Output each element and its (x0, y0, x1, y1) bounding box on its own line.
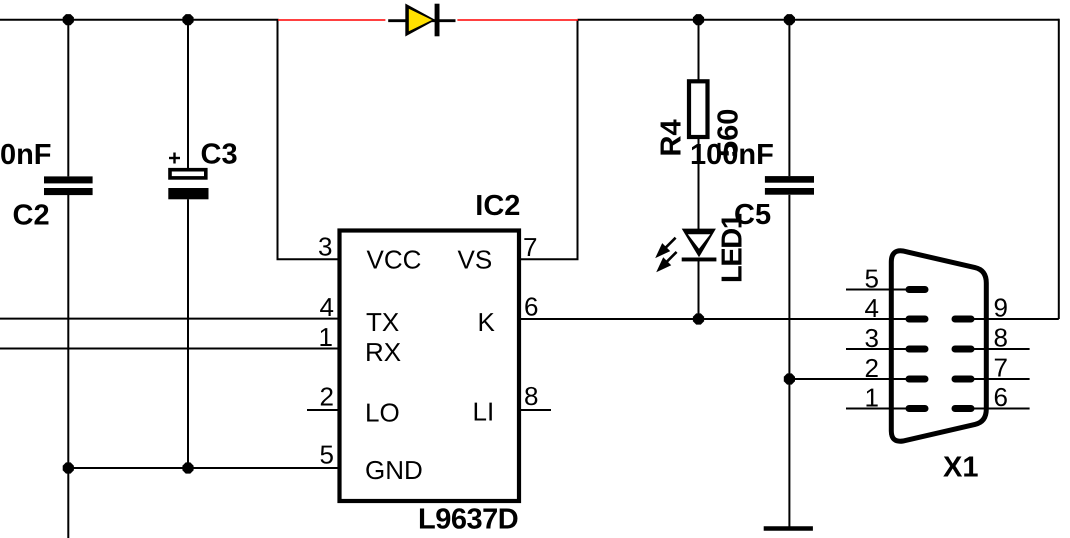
svg-text:R4: R4 (656, 119, 688, 156)
svg-text:GND: GND (365, 455, 423, 485)
wire X1 pin 9 (971, 318, 1059, 320)
wire RX pin 1 (0, 348, 338, 350)
svg-text:8: 8 (524, 381, 538, 411)
svg-text:3: 3 (318, 232, 332, 262)
wire K pin 6 to X1 pin 4 (521, 318, 909, 320)
svg-text:TX: TX (366, 307, 399, 337)
wire C3 bottom to GND rail (187, 199, 189, 468)
svg-text:RX: RX (365, 337, 401, 367)
svg-text:4: 4 (320, 292, 334, 322)
svg-text:LED1: LED1 (717, 213, 749, 283)
junction node GND-C3 (182, 462, 193, 473)
svg-text:7: 7 (523, 232, 537, 262)
connector X1 shell (891, 251, 986, 441)
wire C5 bottom to ground (788, 195, 790, 527)
diode D lead (388, 19, 455, 22)
capacitor C2 plates (44, 176, 93, 195)
junction node C5-pin2 (784, 373, 795, 384)
wire GND pin 5 (68, 467, 337, 469)
svg-text:9: 9 (994, 293, 1008, 323)
svg-text:K: K (478, 307, 496, 337)
svg-text:LO: LO (365, 398, 400, 428)
svg-text:VS: VS (458, 245, 493, 275)
svg-text:1: 1 (865, 383, 879, 413)
capacitor C3 polarity + (169, 153, 180, 164)
wire TX pin 4 (0, 318, 338, 320)
wire X1 pin 5 (846, 289, 909, 291)
svg-text:2: 2 (865, 353, 879, 383)
wire C5 top lead (788, 20, 790, 176)
svg-text:L9637D: L9637D (418, 504, 518, 536)
wire X1 pin 1 (846, 408, 909, 410)
LED LED1 symbol (682, 229, 717, 262)
junction node top C5 (784, 14, 795, 25)
svg-text:1: 1 (319, 322, 333, 352)
svg-text:C3: C3 (201, 139, 238, 171)
svg-text:IC2: IC2 (475, 190, 520, 222)
svg-text:6: 6 (524, 292, 538, 322)
ground symbol (764, 526, 813, 531)
connector X1 pin contacts left column (909, 290, 925, 409)
wire VS pin 7 branch (521, 20, 578, 260)
wire X1 pin 3 (846, 348, 909, 350)
wire X1 pin 2 from C5 node (789, 378, 909, 380)
svg-text:3: 3 (865, 323, 879, 353)
junction node LED-K (693, 313, 704, 324)
wire X1 pin 6 (971, 408, 1030, 410)
svg-text:5: 5 (865, 264, 879, 294)
capacitor C3 (electrolytic) plates (168, 170, 208, 200)
svg-text:2: 2 (320, 382, 334, 412)
wire top rail left (0, 19, 279, 21)
svg-text:X1: X1 (943, 452, 978, 484)
resistor R4 body (689, 81, 708, 137)
svg-text:VCC: VCC (367, 245, 422, 275)
svg-text:4: 4 (865, 293, 879, 323)
IC U1 box (340, 231, 520, 502)
wire top rail right (578, 19, 1059, 21)
svg-text:100nF: 100nF (690, 139, 774, 171)
wire LI pin 8 stub (521, 409, 551, 411)
wire right drop to X1 pin 9 (1058, 19, 1060, 319)
junction node top C3 (182, 14, 193, 25)
wire R4 top lead (698, 20, 700, 82)
wire LO pin 2 stub (307, 409, 338, 411)
capacitor C5 plates (765, 176, 814, 195)
junction node top R4 (693, 14, 704, 25)
svg-text:C2: C2 (13, 200, 50, 232)
wire C2 to GND rail and below (67, 195, 69, 538)
wire X1 pin 8 (971, 348, 1030, 350)
svg-text:6: 6 (994, 382, 1008, 412)
wire X1 pin 7 (971, 378, 1030, 380)
wire VCC pin 3 branch (278, 20, 338, 260)
junction node GND-C2 (63, 462, 74, 473)
svg-text:5: 5 (320, 440, 334, 470)
svg-text:8: 8 (994, 323, 1008, 353)
wire R4 to LED (698, 137, 700, 231)
wire C3 branch vertical top (187, 20, 189, 168)
diode D (yellow) (405, 4, 439, 37)
svg-text:7: 7 (994, 353, 1008, 383)
wire LED to K line (698, 260, 700, 320)
wire C2 branch vertical (67, 20, 69, 177)
svg-text:LI: LI (473, 397, 495, 427)
LED LED1 emission arrows (658, 238, 677, 270)
junction node top C2 (63, 14, 74, 25)
wire red net segment (278, 19, 385, 21)
svg-text:100nF: 100nF (0, 139, 52, 171)
connector X1 pin contacts right column (955, 319, 971, 409)
